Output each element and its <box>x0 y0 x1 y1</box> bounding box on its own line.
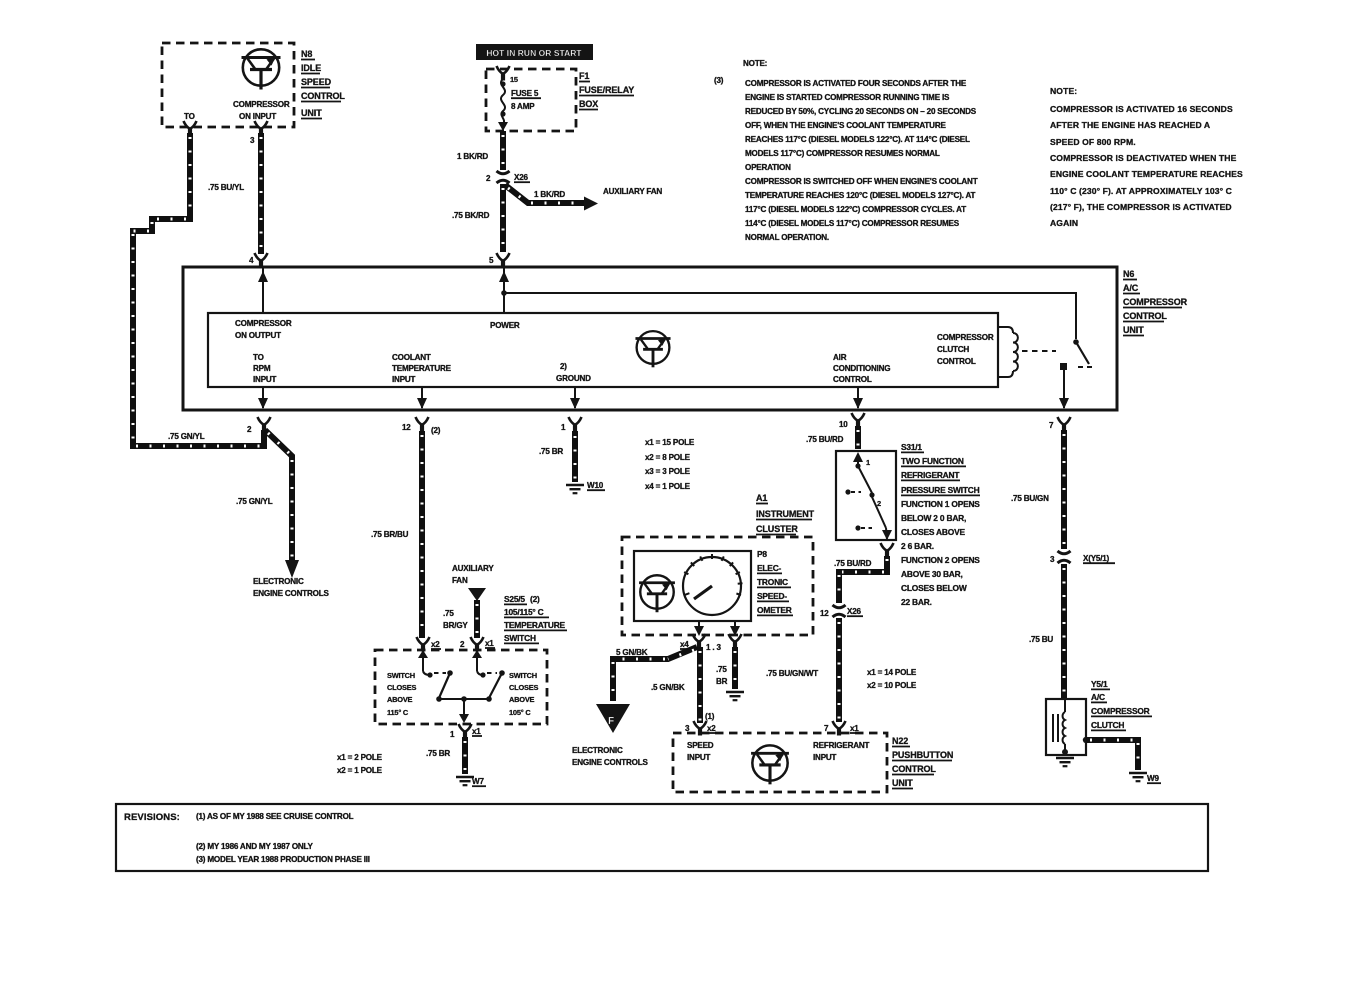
svg-text:BELOW 2 0 BAR,: BELOW 2 0 BAR, <box>901 513 966 523</box>
svg-text:REFRIGERANT: REFRIGERANT <box>813 741 870 750</box>
pin TO connector of N8 <box>184 121 197 136</box>
svg-text:AUXILIARY FAN: AUXILIARY FAN <box>603 187 662 196</box>
connector at fuse top <box>497 66 510 81</box>
svg-text:SWITCH: SWITCH <box>387 671 415 680</box>
svg-text:ABOVE: ABOVE <box>509 695 535 704</box>
svg-text:.5 GN/BK: .5 GN/BK <box>651 683 685 692</box>
fuse/relay box F1 <box>486 69 576 131</box>
pin 5 connector on N6 box top <box>497 253 510 268</box>
svg-text:ENGINE IS STARTED COMPRESSOR: ENGINE IS STARTED COMPRESSOR RUNNING TIM… <box>745 93 950 102</box>
wire power (pin 5 to inner box) <box>499 267 509 313</box>
svg-text:N22: N22 <box>892 736 908 746</box>
electronic speedometer inner box <box>634 551 751 621</box>
N6 inner labels <box>235 319 994 384</box>
cluster output wire left <box>694 621 704 636</box>
wire from relay contact to pin 7 <box>1059 369 1069 409</box>
svg-text:PRESSURE SWITCH: PRESSURE SWITCH <box>901 485 980 495</box>
pushbutton control unit N22 dashed box <box>673 733 887 792</box>
wire coolant temperature input to pin 12 <box>417 387 427 409</box>
S25/5 left switch contact <box>418 650 463 702</box>
svg-text:INPUT: INPUT <box>392 375 416 384</box>
svg-text:.75 BU/RD: .75 BU/RD <box>806 435 844 444</box>
wire .75 BK/RD to pin 5 <box>452 184 503 252</box>
wire .75 GN/YL loop from TO pin down left side <box>133 133 264 446</box>
clutch coil <box>1062 699 1068 755</box>
svg-text:AGAIN: AGAIN <box>1050 218 1078 228</box>
cluster output wire right <box>730 621 740 636</box>
svg-text:A/C: A/C <box>1091 692 1105 702</box>
svg-text:117°C (DIESEL MODELS 122°C) CO: 117°C (DIESEL MODELS 122°C) COMPRESSOR C… <box>745 205 966 214</box>
wire .75 BU/YL from pin 3 to pin 4 <box>208 133 261 254</box>
svg-text:UNIT: UNIT <box>301 108 322 118</box>
svg-text:COMPRESSOR: COMPRESSOR <box>1091 706 1150 716</box>
connector below S31/1 <box>881 543 894 558</box>
svg-text:TEMPERATURE: TEMPERATURE <box>504 620 566 630</box>
svg-text:.75 GN/YL: .75 GN/YL <box>236 497 273 506</box>
svg-text:SWITCH: SWITCH <box>509 671 537 680</box>
wire .75 BU/GN/WT from X26 to N22 pin 7 <box>766 618 839 722</box>
svg-text:SPEED-: SPEED- <box>757 591 787 601</box>
svg-text:FUSE/RELAY: FUSE/RELAY <box>579 85 634 95</box>
svg-text:BOX: BOX <box>579 99 598 109</box>
svg-text:(2): (2) <box>431 426 441 435</box>
svg-text:PUSHBUTTON: PUSHBUTTON <box>892 750 953 760</box>
temperature switch S25/5 designation label <box>504 594 567 643</box>
relay switch blade <box>1076 342 1094 367</box>
svg-text:FUSE 5: FUSE 5 <box>511 89 539 98</box>
N22 internal labels <box>687 741 870 762</box>
svg-text:X26: X26 <box>514 173 528 182</box>
revisions text <box>124 812 370 864</box>
svg-text:(2): (2) <box>530 594 540 604</box>
svg-text:BR: BR <box>716 677 728 686</box>
svg-text:CONTROL: CONTROL <box>301 91 345 101</box>
wire .75 BU/RD from pin 10 to S31/1 <box>806 426 858 449</box>
wire 1 BK/RD branch to auxiliary fan <box>505 185 662 211</box>
svg-text:x2: x2 <box>431 640 440 649</box>
note text block left <box>714 59 978 242</box>
svg-text:CLUSTER: CLUSTER <box>756 524 798 534</box>
N6 designation label <box>1123 269 1188 336</box>
svg-text:TEMPERATURE REACHES 120°C (DIE: TEMPERATURE REACHES 120°C (DIESEL MODELS… <box>745 191 976 200</box>
svg-text:BR/GY: BR/GY <box>443 621 468 630</box>
svg-text:TO: TO <box>253 353 264 362</box>
svg-text:SPEED: SPEED <box>687 741 714 750</box>
svg-text:x4 = 1 POLE: x4 = 1 POLE <box>645 482 691 491</box>
svg-text:105/115° C: 105/115° C <box>504 607 544 617</box>
wire from Y5/1 to ground W9 <box>1086 740 1138 770</box>
svg-text:12: 12 <box>402 423 411 432</box>
svg-text:12: 12 <box>820 609 829 618</box>
svg-text:AIR: AIR <box>833 353 847 362</box>
svg-text:F: F <box>608 716 614 727</box>
svg-text:CONTROL: CONTROL <box>833 375 872 384</box>
svg-text:.75 GN/YL: .75 GN/YL <box>168 432 205 441</box>
connector under cluster right <box>729 634 742 649</box>
wire air conditioning control to pin 10 <box>853 387 863 409</box>
wire power branch to relay contact <box>504 293 1076 339</box>
svg-text:INPUT: INPUT <box>687 753 711 762</box>
svg-text:ELECTRONIC: ELECTRONIC <box>253 577 304 586</box>
transistor symbol inside N22 <box>751 745 789 784</box>
svg-text:REDUCED BY 50%, CYCLING 20 SEC: REDUCED BY 50%, CYCLING 20 SECONDS ON – … <box>745 107 977 116</box>
speedometer gauge <box>683 554 743 615</box>
ground W10 <box>566 485 584 493</box>
svg-text:FUNCTION 2 OPENS: FUNCTION 2 OPENS <box>901 555 980 565</box>
svg-text:W10: W10 <box>587 481 604 490</box>
wire .75 BR from pin 1 to ground W10 <box>539 431 575 482</box>
svg-text:CLUTCH: CLUTCH <box>1091 720 1124 730</box>
svg-text:X(Y5/1): X(Y5/1) <box>1083 554 1110 563</box>
svg-text:GROUND: GROUND <box>556 374 591 383</box>
svg-text:REACHES 117°C (DIESEL MODELS 1: REACHES 117°C (DIESEL MODELS 122°C). AT … <box>745 135 970 144</box>
svg-text:SWITCH: SWITCH <box>504 633 536 643</box>
svg-text:2): 2) <box>560 362 567 371</box>
N8 internal labels <box>184 100 290 121</box>
clutch plates <box>1053 714 1058 742</box>
svg-text:SPEED OF 800 RPM.: SPEED OF 800 RPM. <box>1050 137 1136 147</box>
svg-text:15: 15 <box>510 75 518 84</box>
N22 pin 7 connector <box>833 721 846 736</box>
auxiliary fan arrow into wire <box>468 588 486 601</box>
svg-text:COMPRESSOR IS SWITCHED OFF WHE: COMPRESSOR IS SWITCHED OFF WHEN ENGINE'S… <box>745 177 978 186</box>
S25/5 internal labels <box>387 671 538 717</box>
svg-text:x2 = 10 POLE: x2 = 10 POLE <box>867 681 917 690</box>
svg-text:.75 BR: .75 BR <box>426 749 450 758</box>
svg-text:CONTROL: CONTROL <box>937 357 976 366</box>
svg-text:ELEC-: ELEC- <box>757 563 782 573</box>
wire ground to pin 1 <box>570 387 580 409</box>
ground below Y5/1 <box>1056 758 1074 766</box>
svg-text:TRONIC: TRONIC <box>757 577 788 587</box>
svg-text:S25/5: S25/5 <box>504 594 525 604</box>
svg-text:CLUTCH: CLUTCH <box>937 345 969 354</box>
svg-text:1: 1 <box>450 730 455 739</box>
svg-text:(3) MODEL YEAR 1988 PRODUCTION: (3) MODEL YEAR 1988 PRODUCTION PHASE III <box>196 855 370 864</box>
S25/5 right switch contact <box>465 650 505 702</box>
svg-text:INSTRUMENT: INSTRUMENT <box>756 509 815 519</box>
pole legend lower left <box>337 753 383 775</box>
svg-text:5: 5 <box>489 256 494 265</box>
svg-text:.75 BR: .75 BR <box>539 447 563 456</box>
svg-text:CLOSES: CLOSES <box>387 683 416 692</box>
svg-text:3: 3 <box>1050 555 1055 564</box>
ground under instrument cluster <box>726 692 744 700</box>
svg-text:REFRIGERANT: REFRIGERANT <box>901 470 960 480</box>
svg-text:CLOSES BELOW: CLOSES BELOW <box>901 583 967 593</box>
svg-text:AFTER THE ENGINE HAS REACHED A: AFTER THE ENGINE HAS REACHED A <box>1050 120 1210 130</box>
svg-text:(3): (3) <box>714 76 724 85</box>
svg-text:UNIT: UNIT <box>1123 325 1144 335</box>
svg-text:A1: A1 <box>756 493 767 503</box>
svg-text:3: 3 <box>685 724 690 733</box>
F1 designation label <box>579 71 634 110</box>
transistor symbol inside speedometer <box>639 575 675 612</box>
svg-text:ENGINE CONTROLS: ENGINE CONTROLS <box>572 758 648 767</box>
connector X26 (node 2) <box>497 171 510 183</box>
svg-text:.75 BU/RD: .75 BU/RD <box>834 559 872 568</box>
svg-text:2: 2 <box>247 425 252 434</box>
S31/1 internal contacts <box>845 452 892 540</box>
svg-text:OMETER: OMETER <box>757 605 792 615</box>
wire .75 BR/GY from auxiliary fan to S25/5 <box>443 600 477 638</box>
connector x1 pin 2 on S25/5 <box>471 637 484 652</box>
relay coil of compressor clutch control <box>998 327 1018 377</box>
svg-text:.75: .75 <box>716 665 727 674</box>
svg-text:MODELS 117°C) COMPRESSOR RESUM: MODELS 117°C) COMPRESSOR RESUMES NORMAL <box>745 149 940 158</box>
pin 4 connector on N6 box top <box>255 253 268 268</box>
svg-text:x2 = 8 POLE: x2 = 8 POLE <box>645 453 691 462</box>
svg-text:5 GN/BK: 5 GN/BK <box>616 648 648 657</box>
svg-text:POWER: POWER <box>490 321 520 330</box>
compressor clutch Y5/1 box <box>1046 699 1086 755</box>
pole legend right <box>867 668 917 690</box>
svg-text:x2: x2 <box>707 724 716 733</box>
svg-text:x1 = 2 POLE: x1 = 2 POLE <box>337 753 383 762</box>
pin 3 connector of N8 <box>255 121 268 136</box>
svg-text:TWO FUNCTION: TWO FUNCTION <box>901 456 964 466</box>
speedometer designation label <box>757 549 793 615</box>
N22 designation label <box>892 736 953 789</box>
svg-text:(1) AS OF MY 1988 SEE CRUISE C: (1) AS OF MY 1988 SEE CRUISE CONTROL <box>196 812 354 821</box>
svg-text:NORMAL OPERATION.: NORMAL OPERATION. <box>745 233 829 242</box>
svg-text:ELECTRONIC: ELECTRONIC <box>572 746 623 755</box>
svg-text:ENGINE COOLANT TEMPERATURE REA: ENGINE COOLANT TEMPERATURE REACHES <box>1050 169 1243 179</box>
svg-text:TEMPERATURE: TEMPERATURE <box>392 364 452 373</box>
svg-text:X26: X26 <box>847 607 861 616</box>
wire compressor on output (pin 4 to inner box) <box>258 267 268 313</box>
control unit N8 (idle speed control) box <box>162 43 294 127</box>
ground W9 <box>1129 773 1147 781</box>
svg-text:110° C (230° F). AT APPROXIMAT: 110° C (230° F). AT APPROXIMATELY 103° C <box>1050 186 1232 196</box>
pin 2 connector <box>258 417 271 432</box>
svg-text:x1: x1 <box>472 727 481 736</box>
svg-text:COOLANT: COOLANT <box>392 353 431 362</box>
svg-text:RPM: RPM <box>253 364 271 373</box>
svg-text:105° C: 105° C <box>509 708 531 717</box>
svg-text:ON INPUT: ON INPUT <box>239 112 276 121</box>
svg-text:x3 = 3 POLE: x3 = 3 POLE <box>645 467 691 476</box>
pin 10 connector <box>852 413 865 428</box>
svg-text:.75 BR/BU: .75 BR/BU <box>371 530 409 539</box>
svg-text:COMPRESSOR: COMPRESSOR <box>235 319 292 328</box>
transistor symbol inside N8 <box>242 49 281 89</box>
wire .75 BU from connector to compressor clutch <box>1029 564 1064 698</box>
svg-text:1: 1 <box>866 458 870 467</box>
svg-text:CLOSES ABOVE: CLOSES ABOVE <box>901 527 965 537</box>
svg-text:22 BAR.: 22 BAR. <box>901 597 932 607</box>
svg-text:CLOSES: CLOSES <box>509 683 538 692</box>
svg-text:CONTROL: CONTROL <box>892 764 936 774</box>
svg-text:7: 7 <box>1049 421 1054 430</box>
svg-text:3: 3 <box>250 136 255 145</box>
svg-text:ABOVE 30 BAR,: ABOVE 30 BAR, <box>901 569 963 579</box>
control unit N6 outer box <box>183 267 1117 410</box>
note text block right <box>1050 86 1243 228</box>
N6 inner box <box>208 313 998 387</box>
svg-text:FAN: FAN <box>452 576 468 585</box>
svg-text:8 AMP: 8 AMP <box>511 102 535 111</box>
svg-text:x1: x1 <box>850 724 859 733</box>
S25/5 common node to pin 1 <box>459 696 469 723</box>
wire .75 GN/YL to electronic engine controls <box>236 430 329 598</box>
svg-text:x1 = 14 POLE: x1 = 14 POLE <box>867 668 917 677</box>
connector x1 pin 1 below S25/5 <box>459 724 472 739</box>
wire .5 GN/BK to F arrow <box>613 647 697 701</box>
svg-text:1 BK/RD: 1 BK/RD <box>457 152 488 161</box>
connector x2 on S25/5 <box>417 637 430 652</box>
svg-text:CONDITIONING: CONDITIONING <box>833 364 890 373</box>
svg-text:.75 BK/RD: .75 BK/RD <box>452 211 490 220</box>
svg-text:F1: F1 <box>579 71 589 81</box>
svg-text:1 . 3: 1 . 3 <box>706 643 721 652</box>
N8 designation label <box>301 49 345 119</box>
svg-text:SPEED: SPEED <box>301 77 332 87</box>
svg-text:4: 4 <box>249 256 254 265</box>
dashed actuating link from coil to relay blade <box>1022 350 1056 352</box>
wire .75 BU/GN from pin 7 to connector X(Y5/1) <box>1011 430 1064 549</box>
revisions box <box>116 804 1208 871</box>
svg-text:AUXILIARY: AUXILIARY <box>452 564 494 573</box>
svg-text:COMPRESSOR IS DEACTIVATED WHEN: COMPRESSOR IS DEACTIVATED WHEN THE <box>1050 153 1237 163</box>
transistor symbol inside N6 <box>635 331 670 367</box>
svg-text:10: 10 <box>839 420 848 429</box>
svg-text:.75 BU/GN/WT: .75 BU/GN/WT <box>766 669 818 678</box>
svg-text:(1): (1) <box>705 712 715 721</box>
svg-text:ON OUTPUT: ON OUTPUT <box>235 331 281 340</box>
svg-text:7: 7 <box>824 724 829 733</box>
svg-text:HOT IN RUN OR START: HOT IN RUN OR START <box>486 48 582 58</box>
temperature switch S25/5 box <box>375 650 547 724</box>
svg-text:.75: .75 <box>443 609 454 618</box>
svg-text:(2) MY 1986 AND MY 1987 ONLY: (2) MY 1986 AND MY 1987 ONLY <box>196 842 314 851</box>
svg-text:OPERATION: OPERATION <box>745 163 791 172</box>
svg-text:x1: x1 <box>485 639 494 648</box>
svg-text:CONTROL: CONTROL <box>1123 311 1167 321</box>
wire .5 GN/BK from cluster to N22 pin 3 <box>651 647 700 723</box>
svg-text:NOTE:: NOTE: <box>743 59 767 68</box>
pin 12 connector <box>416 417 429 432</box>
svg-text:P8: P8 <box>757 549 767 559</box>
svg-text:UNIT: UNIT <box>892 778 913 788</box>
svg-text:.75 BU: .75 BU <box>1029 635 1053 644</box>
svg-text:115° C: 115° C <box>387 708 409 717</box>
svg-text:COMPRESSOR IS ACTIVATED 16 SEC: COMPRESSOR IS ACTIVATED 16 SECONDS <box>1050 104 1233 114</box>
svg-text:.75 BU/GN: .75 BU/GN <box>1011 494 1049 503</box>
ground W7 <box>456 777 474 785</box>
wire .75 BU/RD from S31/1 to connector X26 <box>834 556 887 603</box>
svg-text:114°C (DIESEL MODELS 117°C) CO: 114°C (DIESEL MODELS 117°C) COMPRESSOR R… <box>745 219 960 228</box>
connector x4 under cluster <box>693 634 706 649</box>
junction node on power wire <box>501 290 507 296</box>
svg-text:1 BK/RD: 1 BK/RD <box>534 190 565 199</box>
svg-text:W9: W9 <box>1147 774 1159 783</box>
svg-text:ENGINE CONTROLS: ENGINE CONTROLS <box>253 589 329 598</box>
svg-text:COMPRESSOR IS ACTIVATED FOUR S: COMPRESSOR IS ACTIVATED FOUR SECONDS AFT… <box>745 79 967 88</box>
pin 7 connector <box>1058 417 1071 432</box>
svg-text:S31/1: S31/1 <box>901 442 922 452</box>
wire .75 BR from cluster right pin to ground <box>716 647 735 689</box>
svg-text:W7: W7 <box>472 777 484 786</box>
svg-text:COMPRESSOR: COMPRESSOR <box>937 333 994 342</box>
fuse F5 symbol <box>498 75 541 131</box>
svg-text:NOTE:: NOTE: <box>1050 86 1077 96</box>
svg-text:OFF, WHEN THE ENGINE'S COOLANT: OFF, WHEN THE ENGINE'S COOLANT TEMPERATU… <box>745 121 946 130</box>
relay fixed contact <box>1060 363 1067 370</box>
svg-text:COMPRESSOR: COMPRESSOR <box>233 100 290 109</box>
relay switch pivot <box>1073 339 1079 345</box>
Y5/1 designation label <box>1091 679 1152 730</box>
N22 pin 3 connector <box>694 721 707 736</box>
instrument cluster A1 designation label <box>756 493 815 535</box>
svg-text:x1 = 15 POLE: x1 = 15 POLE <box>645 438 695 447</box>
svg-text:2: 2 <box>486 174 491 183</box>
svg-text:ABOVE: ABOVE <box>387 695 413 704</box>
hot in run or start banner <box>476 44 593 60</box>
pressure switch S31/1 box <box>836 451 896 540</box>
svg-text:IDLE: IDLE <box>301 63 321 73</box>
connector X26 (pin 12) <box>833 605 846 617</box>
svg-text:COMPRESSOR: COMPRESSOR <box>1123 297 1188 307</box>
connector X(Y5/1) <box>1058 551 1071 563</box>
svg-text:2: 2 <box>460 640 465 649</box>
svg-text:N8: N8 <box>301 49 312 59</box>
pin 1 connector <box>569 417 582 432</box>
svg-text:FUNCTION 1 OPENS: FUNCTION 1 OPENS <box>901 499 980 509</box>
svg-text:Y5/1: Y5/1 <box>1091 679 1108 689</box>
instrument cluster A1 dashed box <box>622 537 813 635</box>
connector pole legend <box>645 438 695 491</box>
wire .75 BR from S25/5 to ground W7 <box>426 737 465 774</box>
svg-text:.75 BU/YL: .75 BU/YL <box>208 183 244 192</box>
junction node on Y5/1 right edge <box>1083 737 1089 743</box>
auxiliary fan feed label <box>452 564 494 585</box>
svg-text:2 6 BAR.: 2 6 BAR. <box>901 541 934 551</box>
wire rpm output to pin 2 <box>258 387 268 409</box>
svg-text:TO: TO <box>184 112 195 121</box>
svg-text:x2 = 1 POLE: x2 = 1 POLE <box>337 766 383 775</box>
svg-text:REVISIONS:: REVISIONS: <box>124 812 180 823</box>
svg-text:(217° F), THE COMPRESSOR IS AC: (217° F), THE COMPRESSOR IS ACTIVATED <box>1050 202 1232 212</box>
F arrow to electronic engine controls <box>572 704 648 767</box>
svg-text:A/C: A/C <box>1123 283 1139 293</box>
S31/1 designation label <box>901 442 980 607</box>
svg-text:INPUT: INPUT <box>813 753 837 762</box>
svg-text:2: 2 <box>877 499 881 508</box>
wire .75 BR/BU from pin 12 to S25/5 <box>371 431 422 638</box>
svg-text:N6: N6 <box>1123 269 1134 279</box>
svg-text:INPUT: INPUT <box>253 375 277 384</box>
svg-text:1: 1 <box>561 423 566 432</box>
wire 1 BK/RD from fuse to X26 <box>457 131 503 170</box>
